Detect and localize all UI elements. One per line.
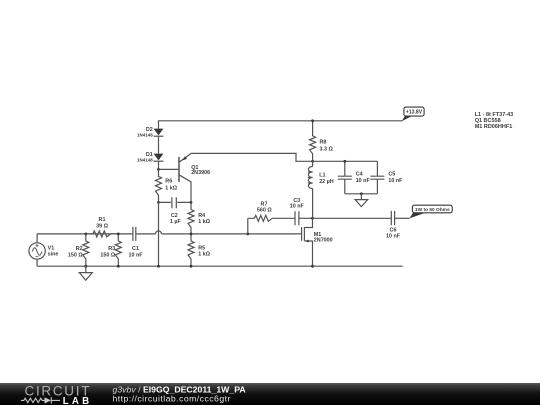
- svg-text:1N4148: 1N4148: [137, 133, 153, 138]
- svg-text:2N3906: 2N3906: [191, 170, 210, 176]
- wire top +13.8V rail: [159, 121, 403, 129]
- svg-text:R1: R1: [99, 217, 106, 223]
- svg-text:10 nF: 10 nF: [290, 204, 305, 210]
- wire C4 C5 bottom: [345, 193, 378, 195]
- transistor M1: [302, 218, 333, 266]
- svg-text:1 kΩ: 1 kΩ: [165, 185, 177, 191]
- node R3 bottom: [117, 265, 120, 268]
- svg-text:C4: C4: [356, 172, 363, 178]
- wire R7 branch up: [247, 218, 249, 234]
- wire bias chain to ground rail: [158, 202, 160, 266]
- svg-text:http://circuitlab.com/ccc6gtr: http://circuitlab.com/ccc6gtr: [113, 393, 231, 403]
- svg-text:10 nF: 10 nF: [386, 234, 401, 240]
- logo mini circuit resistor: [21, 398, 45, 402]
- wire D1 to base node: [158, 161, 160, 169]
- svg-text:L1: L1: [319, 173, 325, 179]
- svg-text:1W to 50 Ohms: 1W to 50 Ohms: [415, 207, 450, 213]
- svg-text:M1 RD06HHF1: M1 RD06HHF1: [475, 124, 513, 130]
- svg-text:R3: R3: [108, 246, 115, 252]
- resistor R3: [100, 234, 121, 266]
- node C4 top: [343, 160, 346, 163]
- svg-text:R6: R6: [165, 179, 172, 185]
- svg-text:1N4148: 1N4148: [137, 158, 153, 163]
- svg-text:2N7000: 2N7000: [314, 238, 333, 244]
- capacitor C2: [159, 197, 191, 225]
- svg-text:1 kΩ: 1 kΩ: [198, 219, 210, 225]
- node R2 top: [84, 233, 87, 236]
- node R6/C2 junction: [157, 201, 160, 204]
- capacitor C3: [290, 198, 313, 226]
- node +13.8V flag: [402, 107, 424, 121]
- node R8 bottom: [311, 160, 314, 163]
- transistor Q1: [179, 153, 313, 202]
- diode D1: [137, 152, 163, 163]
- svg-text:150 Ω: 150 Ω: [68, 252, 83, 258]
- node R3 top: [117, 233, 120, 236]
- resistor R4: [188, 202, 211, 234]
- svg-text:1 µF: 1 µF: [170, 219, 182, 225]
- svg-text:560 Ω: 560 Ω: [257, 208, 272, 214]
- capacitor C4: [338, 161, 371, 194]
- node R4/R5 junction: [190, 233, 193, 236]
- wire crossing hop: [156, 231, 162, 234]
- node R7 branch: [246, 233, 249, 236]
- resistor R1: [86, 217, 119, 237]
- svg-text:39 Ω: 39 Ω: [96, 223, 108, 229]
- source V1 sine: [29, 234, 58, 266]
- resistor R7: [248, 202, 295, 222]
- capacitor C1: [128, 227, 143, 258]
- resistor R8: [310, 121, 334, 162]
- svg-text:C1: C1: [132, 246, 139, 252]
- wire C4 C5 top rail: [313, 160, 378, 162]
- resistor R6: [156, 169, 178, 202]
- svg-text:sine: sine: [48, 252, 59, 258]
- svg-text:R8: R8: [320, 140, 327, 146]
- node R2 bottom: [84, 265, 87, 268]
- svg-text:3.3 Ω: 3.3 Ω: [320, 146, 334, 152]
- wire base: [159, 168, 179, 170]
- node M1 source: [311, 265, 314, 268]
- node C2/R4 junction: [190, 201, 193, 204]
- node R8 top: [311, 119, 314, 122]
- svg-text:10 nF: 10 nF: [128, 252, 143, 258]
- wire drain to C6: [313, 217, 391, 219]
- capacitor C5: [370, 161, 403, 194]
- svg-text:10 nF: 10 nF: [356, 178, 371, 184]
- wire C6 to output flag: [395, 217, 410, 219]
- node base junction: [157, 168, 160, 171]
- node bias chain at ground: [157, 265, 160, 268]
- svg-text:R5: R5: [198, 245, 205, 251]
- node drain junction: [311, 217, 314, 220]
- svg-text:1 kΩ: 1 kΩ: [198, 252, 210, 258]
- wire gate rail: [37, 233, 301, 235]
- svg-text:150 Ω: 150 Ω: [100, 252, 115, 258]
- ground below C4 C5: [355, 194, 368, 207]
- note text parts list: [475, 112, 514, 130]
- svg-text:22 µH: 22 µH: [319, 179, 334, 185]
- node output flag 1W to 50 Ohms: [409, 205, 452, 218]
- capacitor C6: [386, 211, 401, 240]
- svg-text:R2: R2: [76, 246, 83, 252]
- resistor R5: [188, 234, 211, 266]
- logo mini circuit diode: [45, 397, 52, 403]
- svg-text:LAB: LAB: [63, 396, 93, 405]
- wire D2 to D1: [158, 136, 160, 153]
- inductor L1: [308, 161, 334, 218]
- node ground junction: [360, 192, 363, 195]
- resistor R2: [68, 234, 89, 266]
- ground below R2: [79, 266, 92, 280]
- node R5 bottom: [190, 265, 193, 268]
- wire ground rail: [37, 265, 403, 267]
- svg-text:V1: V1: [48, 245, 55, 251]
- svg-text:C5: C5: [388, 172, 395, 178]
- svg-text:10 nF: 10 nF: [388, 178, 403, 184]
- diode D2: [137, 127, 163, 138]
- svg-text:+13.8V: +13.8V: [406, 110, 423, 116]
- svg-text:L1 - 8t FT37-43: L1 - 8t FT37-43: [475, 112, 514, 118]
